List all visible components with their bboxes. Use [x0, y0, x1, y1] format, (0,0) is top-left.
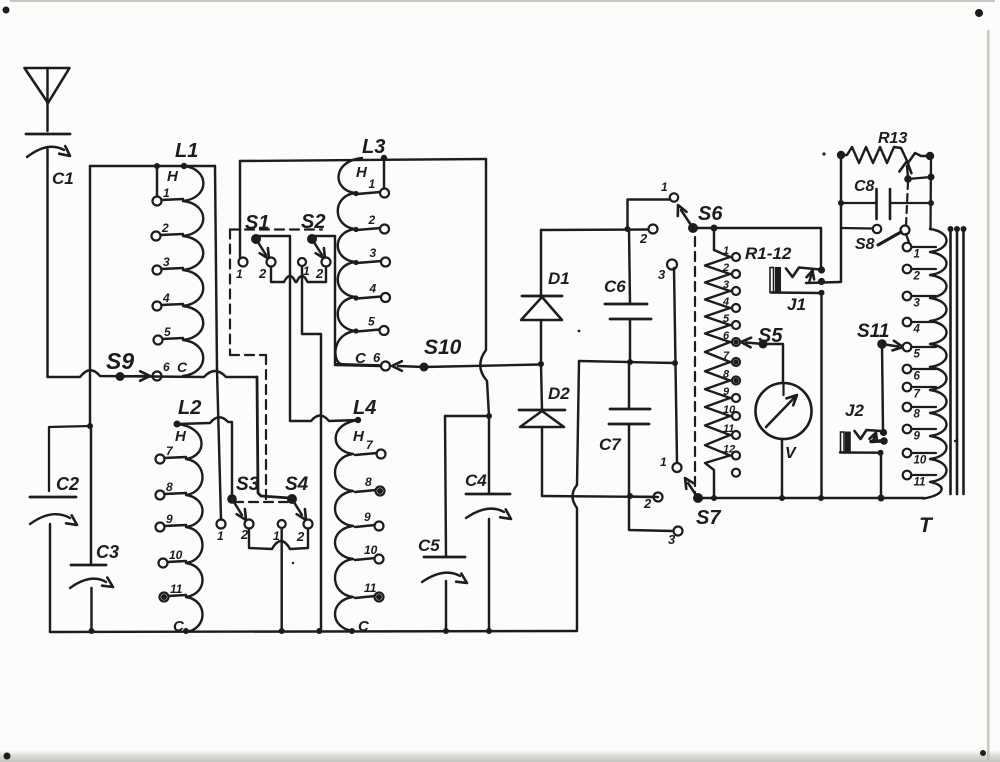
svg-text:2: 2 [315, 266, 324, 281]
svg-text:S8: S8 [855, 236, 875, 253]
svg-text:11: 11 [914, 477, 926, 489]
svg-text:L4: L4 [353, 397, 376, 419]
svg-text:6: 6 [914, 371, 921, 383]
svg-text:S9: S9 [106, 348, 134, 374]
svg-text:3: 3 [163, 255, 170, 269]
svg-text:L1: L1 [175, 140, 198, 162]
svg-text:10: 10 [364, 543, 378, 557]
svg-text:S10: S10 [424, 336, 462, 359]
svg-text:S1: S1 [245, 212, 269, 234]
svg-text:H: H [167, 168, 179, 185]
svg-text:6: 6 [163, 360, 170, 374]
svg-text:3: 3 [723, 279, 729, 291]
svg-text:C3: C3 [96, 542, 119, 562]
svg-text:J1: J1 [787, 295, 806, 314]
svg-text:11: 11 [170, 582, 183, 596]
svg-text:8: 8 [723, 369, 730, 381]
svg-text:L2: L2 [178, 397, 201, 419]
svg-text:1: 1 [369, 177, 376, 191]
svg-text:J2: J2 [845, 401, 864, 420]
svg-text:11: 11 [364, 581, 377, 595]
svg-text:S11: S11 [857, 321, 889, 342]
svg-text:C7: C7 [599, 435, 622, 454]
svg-text:8: 8 [166, 480, 173, 494]
svg-text:H: H [353, 428, 365, 445]
svg-text:10: 10 [723, 404, 736, 416]
svg-text:10: 10 [914, 455, 927, 467]
svg-text:H: H [356, 164, 368, 181]
svg-text:3: 3 [658, 267, 666, 282]
svg-text:2: 2 [368, 213, 376, 227]
svg-text:3: 3 [370, 246, 377, 260]
svg-text:4: 4 [722, 296, 729, 308]
svg-text:5: 5 [723, 313, 730, 325]
svg-text:V: V [785, 445, 797, 462]
svg-text:11: 11 [723, 423, 734, 435]
svg-text:4: 4 [913, 324, 921, 336]
svg-text:3: 3 [668, 532, 676, 547]
svg-text:7: 7 [914, 389, 921, 401]
svg-text:9: 9 [723, 386, 730, 398]
svg-text:C4: C4 [465, 471, 487, 490]
svg-text:R1-12: R1-12 [745, 244, 792, 263]
svg-text:1: 1 [236, 267, 243, 281]
svg-text:6: 6 [373, 350, 381, 365]
svg-text:5: 5 [914, 349, 921, 361]
svg-text:S7: S7 [696, 507, 721, 529]
svg-text:6: 6 [723, 330, 730, 342]
svg-text:2: 2 [643, 496, 652, 511]
svg-text:5: 5 [164, 325, 171, 339]
svg-text:1: 1 [661, 180, 668, 194]
svg-text:2: 2 [913, 271, 921, 283]
svg-text:1: 1 [217, 529, 224, 543]
svg-text:C: C [355, 350, 367, 367]
svg-text:S2: S2 [301, 211, 325, 233]
svg-text:2: 2 [296, 529, 305, 544]
svg-text:4: 4 [162, 291, 170, 305]
svg-text:4: 4 [369, 282, 377, 296]
svg-text:3: 3 [914, 298, 921, 310]
svg-text:S3: S3 [236, 474, 260, 495]
svg-text:1: 1 [660, 455, 667, 469]
svg-text:1: 1 [163, 186, 170, 200]
svg-text:2: 2 [258, 266, 267, 281]
svg-text:8: 8 [914, 409, 921, 421]
svg-text:10: 10 [169, 548, 183, 562]
svg-text:L3: L3 [362, 136, 385, 158]
svg-text:S6: S6 [698, 203, 723, 225]
svg-text:9: 9 [364, 510, 371, 524]
svg-text:C2: C2 [56, 474, 79, 494]
svg-text:2: 2 [722, 262, 729, 274]
svg-text:S4: S4 [285, 474, 309, 495]
svg-text:2: 2 [240, 527, 249, 542]
svg-text:8: 8 [365, 475, 372, 489]
svg-text:9: 9 [914, 431, 921, 443]
svg-text:2: 2 [161, 221, 169, 235]
svg-text:9: 9 [166, 512, 173, 526]
svg-text:T: T [919, 514, 934, 537]
svg-text:C5: C5 [418, 536, 440, 555]
svg-text:H: H [175, 428, 187, 445]
svg-text:2: 2 [639, 231, 648, 246]
svg-text:1: 1 [723, 245, 729, 257]
svg-text:C6: C6 [604, 277, 626, 296]
svg-text:12: 12 [723, 444, 735, 456]
svg-text:1: 1 [914, 249, 920, 261]
svg-text:C8: C8 [854, 178, 875, 195]
svg-text:C: C [177, 359, 188, 375]
svg-text:D1: D1 [548, 269, 570, 288]
svg-text:C1: C1 [52, 169, 74, 188]
svg-text:5: 5 [368, 315, 375, 329]
svg-text:7: 7 [723, 350, 730, 362]
svg-text:R13: R13 [878, 130, 907, 147]
svg-text:D2: D2 [548, 384, 570, 403]
